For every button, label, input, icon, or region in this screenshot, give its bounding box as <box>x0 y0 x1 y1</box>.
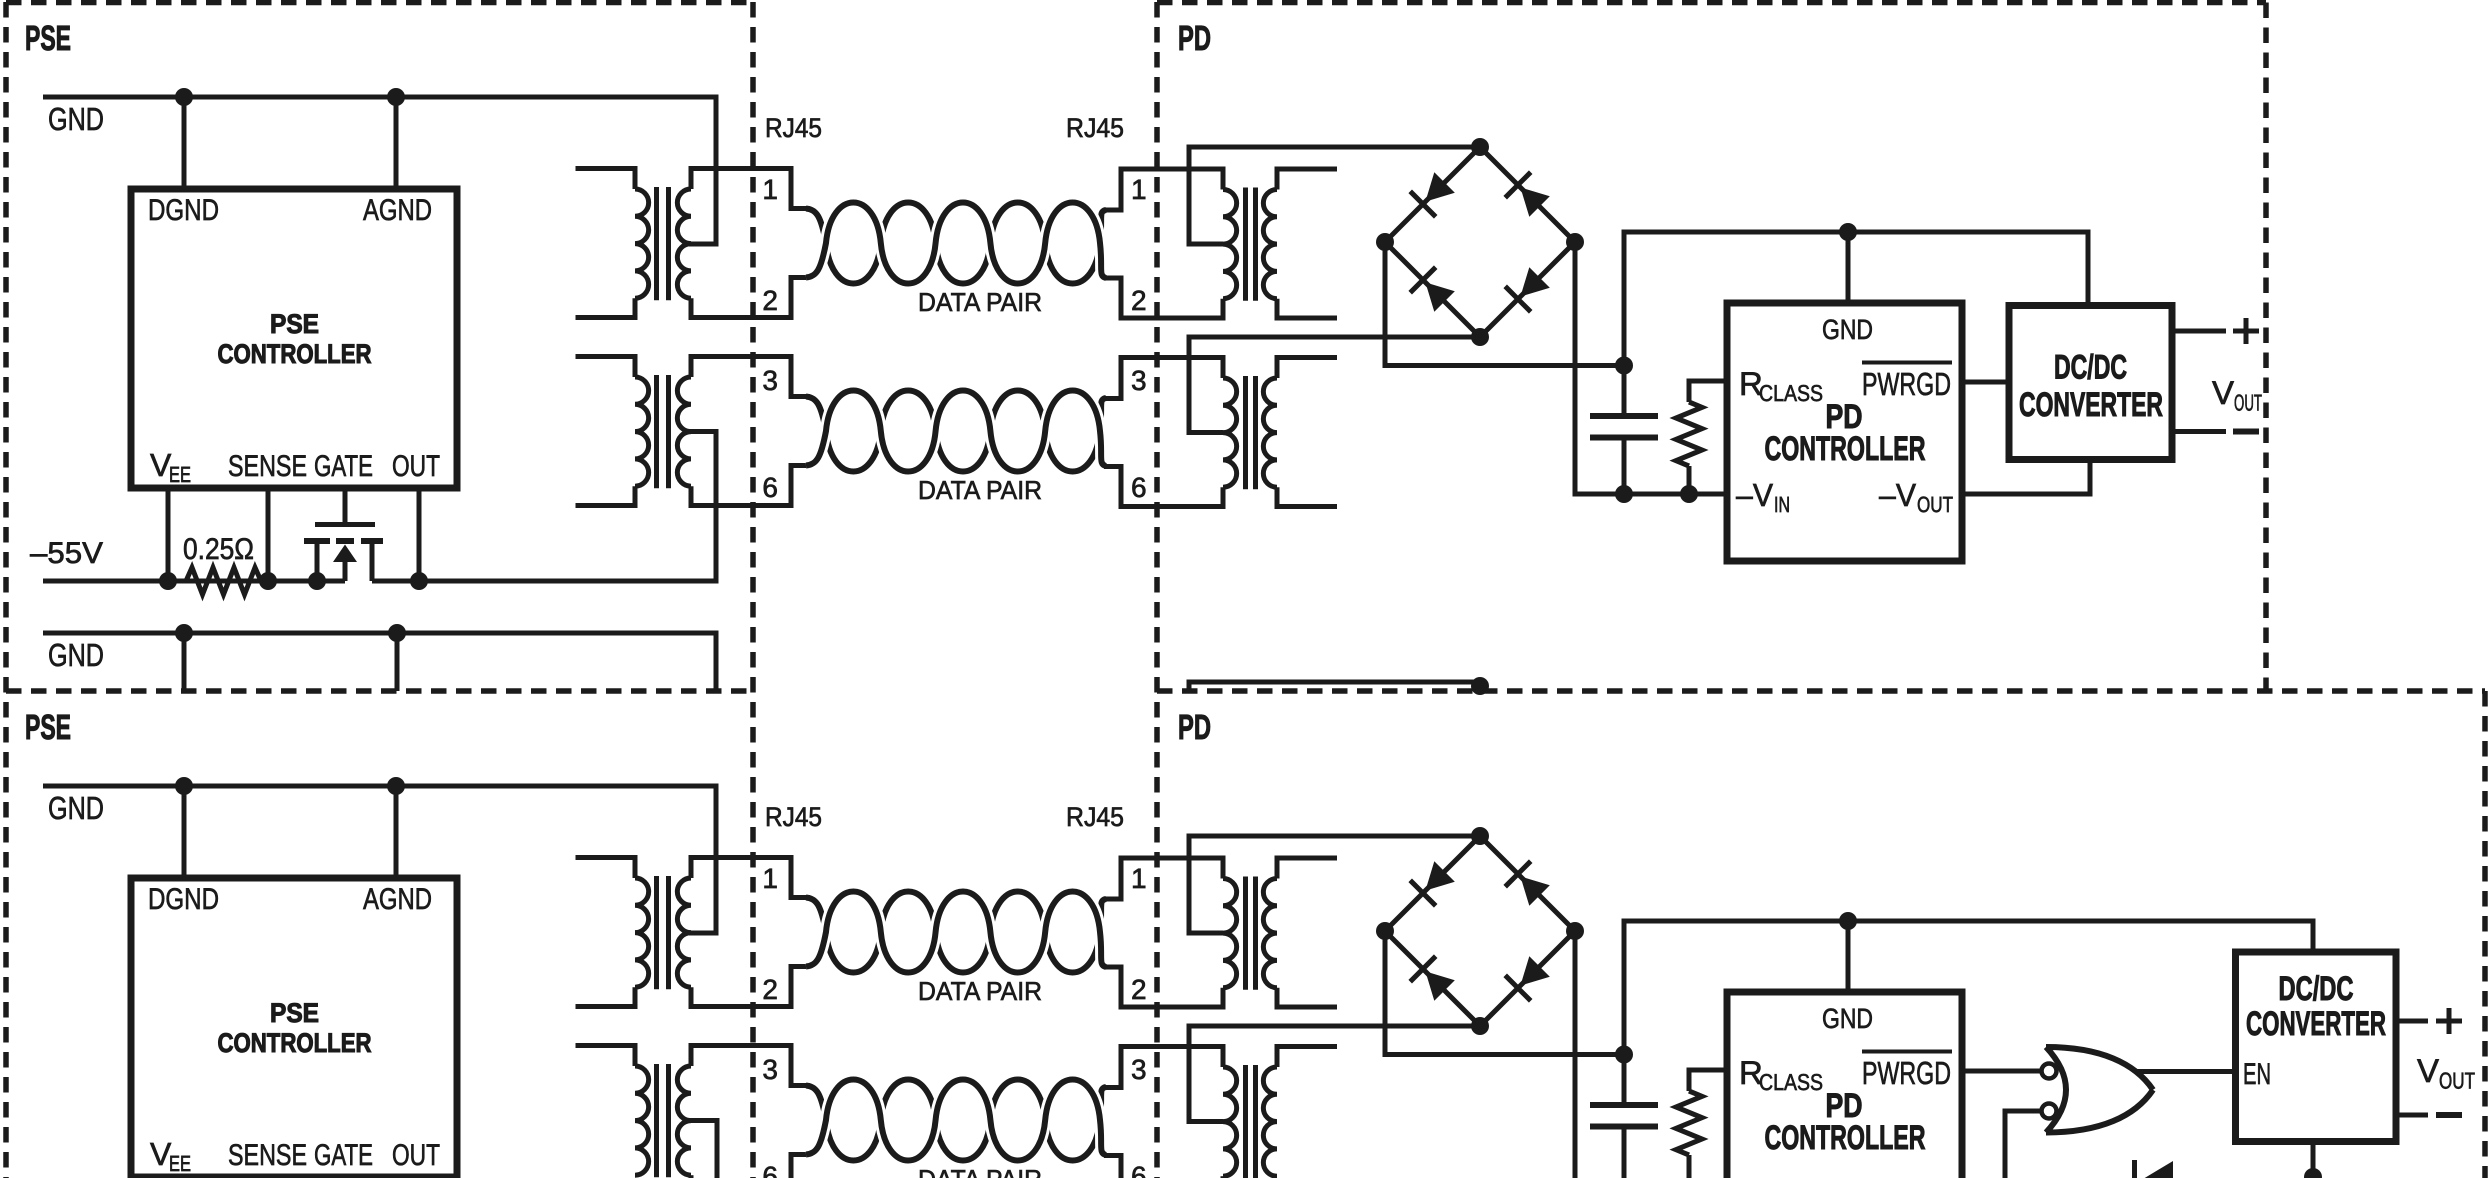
capacitor C1 plates <box>1590 416 1658 438</box>
transformer T2 PSE-side left winding <box>635 377 649 486</box>
wire RCLASS pin stub (bottom) <box>1689 1070 1727 1091</box>
wire RJ45 to transformer T3 PD-side pin bottom (plug body) <box>1104 278 1223 318</box>
bridge left vertex node (+) <box>1376 233 1394 251</box>
wire GND riser and rail to DC/DC (bottom) <box>1624 921 2313 1055</box>
stub wire from GND rail2 to border left <box>182 633 187 691</box>
junction node MOSFET source <box>308 572 326 590</box>
wire RJ45 to transformer T4 PD-side pin top (plug body) <box>1104 358 1223 399</box>
svg-text:0.25Ω: 0.25Ω <box>183 533 254 566</box>
bridge diode D3 (top-right arm) (bottom) <box>1520 876 1549 905</box>
junction node SENSE/resistor <box>259 572 277 590</box>
wire DC/DC + output <box>2172 329 2226 334</box>
svg-text:DC/DC: DC/DC <box>2279 970 2354 1008</box>
PSE box dashed border left <box>3 2 9 1178</box>
transformer T6 PSE-side left winding top stub (bottom) <box>576 1046 636 1067</box>
GND rail 2 - wire <box>43 633 716 691</box>
MOSFET Q1 body arrow stem <box>343 560 348 581</box>
transformer T1 PSE-side left winding <box>635 189 649 298</box>
transformer T5 PSE-side left winding (bottom) <box>635 878 649 987</box>
wire transformer to RJ45 pin 2 (with plug body bottom) <box>691 278 810 318</box>
DC/DC converter U7 box (bottom) <box>2236 952 2397 1142</box>
-55V rail wire (left) <box>43 579 345 584</box>
bridge bottom vertex node <box>1471 328 1489 346</box>
svg-text:6: 6 <box>1131 472 1147 503</box>
svg-text:2: 2 <box>762 974 778 1005</box>
bridge right vertex node (-) (bottom) <box>1566 922 1584 940</box>
svg-text:RJ45: RJ45 <box>1066 802 1124 832</box>
svg-text:2: 2 <box>1131 285 1147 316</box>
stub wire from GND rail2 to border right <box>395 633 400 691</box>
wire T3 center tap to bridge top vertex <box>1189 147 1480 244</box>
transformer T2 PSE-side core <box>657 375 669 488</box>
resistor R1 0.25ohm sense <box>172 568 278 595</box>
svg-text:OUT: OUT <box>2234 390 2262 416</box>
transformer T8 PD-side left winding (bottom) <box>1223 1067 1237 1176</box>
transformer T4 PD-side right winding bottom stub <box>1277 487 1337 506</box>
svg-text:RJ45: RJ45 <box>1066 113 1124 143</box>
wire transformer to RJ45 pin 3 (with plug body top) (bottom) <box>691 1046 810 1086</box>
svg-text:SENSE: SENSE <box>228 1139 307 1172</box>
transformer T6 PSE-side left winding (bottom) <box>635 1066 649 1175</box>
transformer T3 PD-side right winding <box>1263 190 1277 299</box>
PD box dashed border top <box>1157 0 2266 5</box>
wire RJ45 to transformer T7 PD-side pin bottom (plug body) (bottom) <box>1104 967 1223 1007</box>
MOSFET Q1 drain lead <box>370 544 375 582</box>
MOSFET Q1 channel segments <box>304 538 383 544</box>
PD controller U5 box (bottom, clipped) <box>1727 992 1962 1178</box>
PSE/RJ45 dashed border right (x=753) <box>750 2 756 1178</box>
svg-text:DATA PAIR: DATA PAIR <box>918 976 1042 1006</box>
svg-text:GND: GND <box>48 790 104 826</box>
wire VEE pin <box>166 488 171 581</box>
svg-text:DATA PAIR: DATA PAIR <box>918 287 1042 317</box>
minus symbol (bottom VOUT) <box>2436 1112 2462 1118</box>
svg-text:3: 3 <box>1131 1054 1147 1085</box>
svg-text:EN: EN <box>2243 1058 2271 1091</box>
transformer T1 PSE-side core <box>657 187 669 300</box>
svg-text:RJ45: RJ45 <box>765 802 822 832</box>
svg-text:3: 3 <box>762 365 778 396</box>
PD box dashed border left (x=1157) <box>1154 2 1160 1178</box>
OR gate input bubble 2 <box>2042 1104 2057 1119</box>
PD box dashed border right (top section) <box>2263 3 2269 692</box>
MOSFET Q1 gate bar <box>315 522 375 527</box>
transformer T3 PD-side core <box>1246 188 1256 301</box>
diode D9 body (clipped) <box>2138 1161 2173 1178</box>
junction node GND rail at PD controller (bottom) <box>1839 912 1857 930</box>
svg-text:1: 1 <box>762 174 778 205</box>
twisted pair cable 3-6 (bottom) <box>806 1080 1106 1161</box>
twisted pair cable 3-6 (top) <box>806 391 1106 472</box>
transformer T2 PSE-side left winding top stub <box>576 357 636 378</box>
svg-text:CONTROLLER: CONTROLLER <box>1765 1119 1926 1157</box>
svg-text:V: V <box>2212 374 2234 411</box>
svg-text:CONTROLLER: CONTROLLER <box>218 339 372 369</box>
-55V switched rail wire (right) to transformer T2 center tap <box>372 432 716 582</box>
resistor R3 bottom lead (bottom, clipped) <box>1687 1155 1692 1178</box>
wire GND riser and rail to DC/DC <box>1624 232 2088 366</box>
horizontal dashed border between sections (right) <box>1157 688 2485 694</box>
junction node VEE/-55V <box>159 572 177 590</box>
svg-text:GND: GND <box>1822 1003 1873 1034</box>
PD controller U2 box <box>1727 303 1962 561</box>
capacitor C2 plates (bottom) <box>1590 1105 1658 1127</box>
svg-text:GND: GND <box>48 637 104 673</box>
wire PD controller GND pin (bottom) <box>1846 921 1851 992</box>
svg-text:PD: PD <box>1178 708 1211 747</box>
svg-text:–55V: –55V <box>30 537 103 570</box>
transformer T8 PD-side core (bottom) <box>1246 1065 1256 1178</box>
GND rail (bottom PSE) - wire <box>43 786 716 933</box>
svg-text:GND: GND <box>1822 314 1873 345</box>
capacitor C1 bottom lead <box>1622 438 1627 495</box>
bridge diode D1 (top-left arm) (bottom) <box>1425 861 1454 890</box>
diode bridge rectifier - diamond arms (bottom) <box>1385 836 1575 1026</box>
twisted pair cable 1-2 (top) <box>806 203 1106 284</box>
transformer T7 PD-side right winding bottom stub (bottom) <box>1277 988 1337 1007</box>
wire bridge right vertex (-) down and right to -VIN <box>1575 242 1727 494</box>
plus symbol (bottom VOUT) <box>2436 1008 2462 1034</box>
wire PWRGD to DC/DC <box>1962 380 2009 385</box>
svg-text:3: 3 <box>762 1054 778 1085</box>
junction node GND/DGND (bottom) <box>175 777 193 795</box>
transformer T7 PD-side right winding top stub (bottom) <box>1277 858 1337 879</box>
transformer T4 PD-side left winding <box>1223 378 1237 487</box>
wire T7 center tap to bridge top vertex (bottom) <box>1189 836 1480 933</box>
svg-text:IN: IN <box>1774 492 1790 517</box>
junction node cap top / GND (bottom) <box>1615 1046 1633 1064</box>
bridge left vertex node (+) (bottom) <box>1376 922 1394 940</box>
OR gate input bubble 1 <box>2042 1064 2057 1079</box>
wire DC/DC - output <box>2172 429 2226 434</box>
transformer T5 PSE-side core (bottom) <box>657 876 669 989</box>
svg-text:CLASS: CLASS <box>1759 380 1823 406</box>
wire transformer to RJ45 pin 6 (with plug body bottom) <box>691 466 810 506</box>
svg-text:AGND: AGND <box>363 883 432 916</box>
transformer T5 PSE-side left winding bottom stub (bottom) <box>576 987 636 1006</box>
capacitor C2 bottom lead (bottom, clipped) <box>1622 1127 1627 1178</box>
wire PD controller GND pin <box>1846 232 1851 303</box>
transformer T6 PSE-side core (bottom) <box>657 1064 669 1177</box>
svg-text:V: V <box>2417 1052 2439 1089</box>
transformer T7 PD-side core (bottom) <box>1246 877 1256 990</box>
DC/DC converter U3 box <box>2009 306 2172 460</box>
GND rail top - wire <box>43 97 716 244</box>
svg-text:DGND: DGND <box>148 883 219 916</box>
diode D9 cathode bar (clipped) <box>2132 1160 2137 1178</box>
wire SENSE pin <box>266 488 271 581</box>
svg-text:GND: GND <box>48 101 104 137</box>
twisted pair cable 1-2 (bottom) <box>806 892 1106 973</box>
PSE box dashed border top <box>6 0 753 5</box>
transformer T3 PD-side right winding bottom stub <box>1277 299 1337 318</box>
bridge diode D2 (bottom-left arm) <box>1425 282 1454 311</box>
wire bridge left vertex (+) down and right <box>1385 242 1624 366</box>
svg-text:AGND: AGND <box>363 194 432 227</box>
wire -VOUT to DC/DC bottom <box>1962 460 2090 495</box>
wire DC/DC - output (bottom) <box>2396 1113 2428 1118</box>
junction node on GND rail2 left <box>175 624 193 642</box>
transformer T4 PD-side right winding <box>1263 378 1277 487</box>
svg-text:PWRGD: PWRGD <box>1862 1055 1951 1091</box>
svg-text:PSE: PSE <box>25 19 71 58</box>
bridge diode D1 (top-left arm) <box>1425 172 1454 201</box>
plus symbol (top VOUT) <box>2233 318 2259 344</box>
wire RJ45 to transformer T8 PD-side pin top (plug body) (bottom) <box>1104 1047 1223 1088</box>
svg-text:GATE: GATE <box>314 1139 373 1172</box>
junction node on GND rail at DGND <box>175 88 193 106</box>
wire OR gate output to EN <box>2136 1069 2236 1074</box>
transformer T7 PD-side right winding (bottom) <box>1263 879 1277 988</box>
transformer T8 PD left winding bottom clipped (bottom) <box>1221 1176 1226 1178</box>
wire RJ45 pin 6 plug body bottom (clipped) (bottom) <box>791 1155 810 1178</box>
svg-text:EE: EE <box>169 462 191 487</box>
transformer T6 PSE-side right winding (bottom) <box>677 1066 691 1175</box>
wire DGND pin <box>182 97 187 189</box>
PWRGD overline (bottom) <box>1862 1050 1952 1054</box>
svg-text:6: 6 <box>762 472 778 503</box>
transformer T PSE right winding bottom (clipped) (bottom) <box>689 1175 694 1178</box>
wire DC/DC + output (bottom) <box>2396 1019 2428 1024</box>
svg-text:PWRGD: PWRGD <box>1862 366 1951 402</box>
svg-text:OUT: OUT <box>392 1139 440 1172</box>
svg-text:3: 3 <box>1131 365 1147 396</box>
svg-text:SENSE: SENSE <box>228 450 307 483</box>
transformer T1 PSE-side left winding bottom stub <box>576 298 636 317</box>
svg-text:2: 2 <box>762 285 778 316</box>
svg-text:CONVERTER: CONVERTER <box>2246 1005 2386 1043</box>
transformer T4 PD-side right winding top stub <box>1277 358 1337 379</box>
transformer T3 PD-side right winding top stub <box>1277 169 1337 190</box>
transformer T5 PSE-side left winding top stub (bottom) <box>576 858 636 879</box>
junction node cap top / GND <box>1615 357 1633 375</box>
node on border <box>1471 677 1489 695</box>
junction node resistor bottom / -VIN <box>1680 485 1698 503</box>
MOSFET Q1 body arrow <box>333 545 357 563</box>
wire T8 center tap to bridge bottom vertex (bottom) <box>1189 1026 1480 1122</box>
minus symbol (top VOUT) <box>2233 429 2259 435</box>
resistor R3 RCLASS (bottom) <box>1676 1091 1702 1155</box>
svg-text:6: 6 <box>762 1161 778 1178</box>
resistor R2 RCLASS <box>1676 402 1702 466</box>
svg-text:2: 2 <box>1131 974 1147 1005</box>
wire transformer to RJ45 pin 3 (with plug body top) <box>691 357 810 397</box>
junction node GND rail at PD controller <box>1839 223 1857 241</box>
wire DC/DC bottom pin (clipped) <box>2311 1142 2316 1178</box>
MOSFET Q1 source lead <box>315 544 320 582</box>
junction node on GND rail2 right <box>388 624 406 642</box>
junction node on GND rail at AGND <box>387 88 405 106</box>
capacitor C2 top lead (bottom) <box>1622 1055 1627 1106</box>
svg-text:CONTROLLER: CONTROLLER <box>218 1028 372 1058</box>
svg-text:1: 1 <box>1131 174 1147 205</box>
transformer T3 PD-side left winding <box>1223 190 1237 299</box>
svg-text:DGND: DGND <box>148 194 219 227</box>
transformer T5 PSE-side right winding (bottom) <box>677 878 691 987</box>
svg-text:PD: PD <box>1178 19 1211 58</box>
svg-text:1: 1 <box>1131 863 1147 894</box>
bridge diode D4 (bottom-right arm) (bottom) <box>1520 956 1549 985</box>
svg-text:DATA PAIR: DATA PAIR <box>918 475 1042 505</box>
PSE controller U4 box (bottom) <box>131 878 457 1177</box>
transformer T2 PSE-side right winding <box>677 377 691 486</box>
PSE controller U1 box <box>131 189 457 488</box>
transformer T8 PD-side right winding (bottom) <box>1263 1067 1277 1176</box>
svg-text:–V: –V <box>1736 477 1774 513</box>
svg-text:EE: EE <box>169 1151 191 1176</box>
svg-text:DC/DC: DC/DC <box>2054 349 2127 387</box>
svg-text:RJ45: RJ45 <box>765 113 822 143</box>
wire bridge right vertex down (bottom, clipped) <box>1573 931 1578 1178</box>
junction node cap bottom / -VIN <box>1615 485 1633 503</box>
resistor R2 bottom lead <box>1687 466 1692 494</box>
horizontal dashed border between sections (left) <box>6 688 753 694</box>
wire OUT pin <box>417 488 422 581</box>
svg-text:PSE: PSE <box>270 998 319 1028</box>
transformer T2 PSE-side left winding bottom stub <box>576 486 636 505</box>
svg-text:PSE: PSE <box>270 309 319 339</box>
diode bridge rectifier - diamond arms <box>1385 147 1575 337</box>
bridge top vertex node (bottom) <box>1471 827 1489 845</box>
OR gate U6 body <box>2046 1047 2153 1133</box>
wire T4 center tap to bridge bottom vertex <box>1189 337 1480 433</box>
svg-text:6: 6 <box>1131 1161 1147 1178</box>
wire DGND pin (bottom) <box>182 786 187 878</box>
svg-text:CONTROLLER: CONTROLLER <box>1765 430 1926 468</box>
wire RCLASS pin stub <box>1689 381 1727 402</box>
wire PWRGD to OR gate input 1 <box>1962 1069 2041 1074</box>
wire transformer to RJ45 pin 1 (with plug body top) <box>691 169 810 209</box>
wire GATE pin <box>343 488 348 525</box>
wire RJ45 to transformer T4 PD-side pin bottom (plug body) <box>1104 467 1223 507</box>
wire spur above border with node <box>1189 682 1480 692</box>
capacitor C1 top lead <box>1622 366 1627 417</box>
junction node GND/AGND (bottom) <box>387 777 405 795</box>
bridge diode D2 (bottom-left arm) (bottom) <box>1425 971 1454 1000</box>
transformer T4 PD-side core <box>1246 376 1256 489</box>
wire AGND pin (bottom) <box>394 786 399 878</box>
wire RJ45 plug body bottom clipped (bottom) <box>1104 1156 1121 1178</box>
junction node OUT/drain <box>410 572 428 590</box>
PWRGD overline <box>1862 361 1952 365</box>
svg-text:OUT: OUT <box>2439 1068 2475 1094</box>
wire transformer to RJ45 pin 2 (with plug body bottom) (bottom) <box>691 967 810 1007</box>
svg-text:CONVERTER: CONVERTER <box>2019 386 2163 424</box>
svg-text:OUT: OUT <box>392 450 440 483</box>
wire RJ45 to transformer T3 PD-side pin top (plug body) <box>1104 169 1223 210</box>
svg-text:CLASS: CLASS <box>1759 1069 1823 1095</box>
bridge top vertex node <box>1471 138 1489 156</box>
transformer T8 PD-side right winding top stub (bottom) <box>1277 1047 1337 1068</box>
wire transformer to RJ45 pin 1 (with plug body top) (bottom) <box>691 858 810 898</box>
svg-text:GATE: GATE <box>314 450 373 483</box>
wire bridge left vertex down/right (bottom) <box>1385 931 1624 1055</box>
wire OR gate input 2 (clipped, to diode) <box>2005 1111 2041 1178</box>
junction node below DC/DC <box>2304 1168 2322 1178</box>
bridge diode D3 (top-right arm) <box>1520 187 1549 216</box>
svg-text:DATA PAIR: DATA PAIR <box>918 1164 1042 1178</box>
bridge bottom vertex node (bottom) <box>1471 1017 1489 1035</box>
svg-text:PSE: PSE <box>25 708 71 747</box>
wire AGND pin <box>394 97 399 189</box>
svg-text:1: 1 <box>762 863 778 894</box>
transformer T1 PSE-side left winding top stub <box>576 169 636 190</box>
wire RJ45 to transformer T7 PD-side pin top (plug body) (bottom) <box>1104 858 1223 899</box>
transformer T7 PD-side left winding (bottom) <box>1223 879 1237 988</box>
PD box dashed border right (bottom section) <box>2482 691 2488 1178</box>
svg-text:OUT: OUT <box>1917 492 1953 517</box>
wire T6 center tap riser (bottom, clipped) <box>689 1121 717 1178</box>
svg-text:–V: –V <box>1879 477 1917 513</box>
bridge diode D4 (bottom-right arm) <box>1520 267 1549 296</box>
bridge right vertex node (-) <box>1566 233 1584 251</box>
transformer T1 PSE-side right winding <box>677 189 691 298</box>
